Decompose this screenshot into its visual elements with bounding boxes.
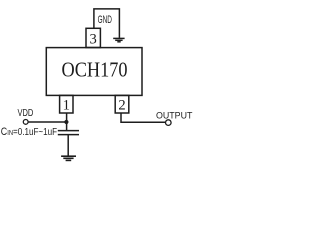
wire VDD to node A — [28, 121, 66, 123]
wire pin3 to GND net — [94, 9, 120, 38]
terminal OUTPUT — [166, 120, 172, 126]
pin 3 box — [86, 28, 100, 47]
capacitor C_IN — [58, 131, 79, 135]
wire pin1 down to node A and capacitor — [66, 113, 68, 131]
terminal VDD — [23, 120, 28, 125]
op-amp U1 OCH170 IC body — [46, 48, 142, 96]
svg-text:2: 2 — [118, 97, 125, 113]
svg-text:VDD: VDD — [18, 108, 34, 119]
node A junction dot — [64, 120, 68, 124]
svg-text:1: 1 — [63, 97, 70, 113]
svg-text:OUTPUT: OUTPUT — [156, 110, 193, 120]
wire pin2 to OUTPUT — [121, 113, 166, 122]
ground (bottom, capacitor) — [61, 156, 76, 160]
pin 2 box — [115, 95, 129, 113]
svg-text:3: 3 — [90, 31, 97, 47]
pin 1 box — [60, 95, 73, 113]
svg-text:OCH170: OCH170 — [62, 57, 128, 81]
wire capacitor to ground — [67, 135, 69, 156]
svg-text:GND: GND — [98, 14, 112, 26]
ground (top, pin3) — [113, 38, 124, 41]
